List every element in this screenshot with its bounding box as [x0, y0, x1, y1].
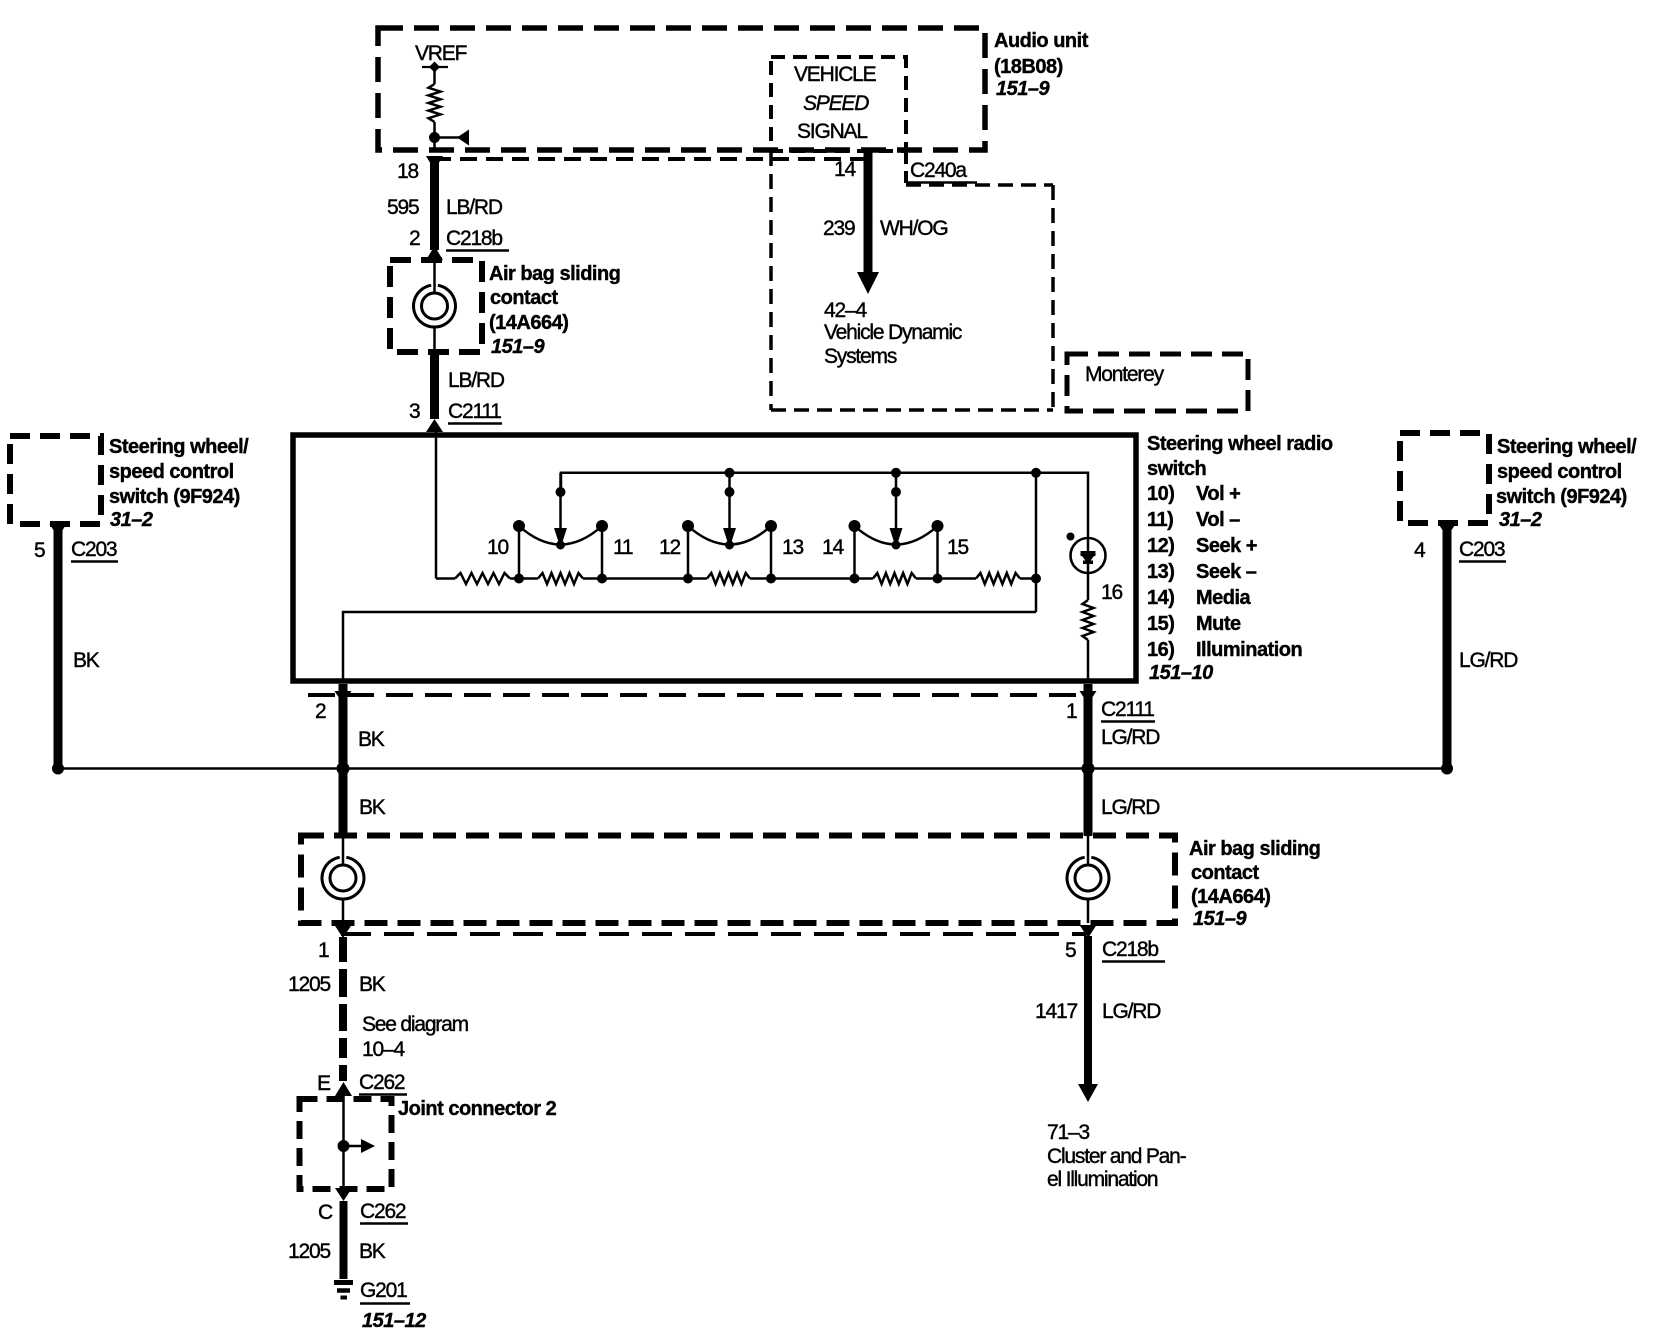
resistor bus wire segments — [436, 577, 1036, 580]
svg-text:Systems: Systems — [824, 345, 897, 368]
svg-text:2: 2 — [315, 700, 326, 723]
switch legend list — [1147, 483, 1302, 661]
svg-text:(14A664): (14A664) — [1191, 886, 1270, 908]
junction dot resistor bus end — [1031, 574, 1041, 584]
wire 239 WH/OG (thick, arrow down) — [857, 151, 879, 294]
wire label 595 LB/RD — [387, 196, 503, 219]
wire to pin 2 (internal) — [343, 612, 1036, 681]
pin 16 label — [1101, 581, 1122, 604]
switch pin 13 label — [782, 536, 803, 559]
connector arrow up at C218b pin 2 — [426, 246, 443, 260]
svg-text:10: 10 — [487, 536, 508, 559]
steering wheel/speed control switch (right) label — [1496, 436, 1637, 531]
svg-text:LG/RD: LG/RD — [1101, 726, 1160, 749]
svg-text:BK: BK — [73, 649, 100, 672]
svg-text:C262: C262 — [359, 1071, 405, 1094]
svg-text:BK: BK — [359, 1240, 386, 1263]
speed signal pickup symbol (horn) — [435, 130, 470, 146]
ground G201 symbol — [334, 1283, 353, 1298]
junction dot BK / cross wire — [337, 762, 350, 775]
svg-text:1205: 1205 — [288, 973, 330, 996]
wire label 1417 LG/RD — [1035, 1000, 1161, 1023]
junction dot right — [1441, 763, 1453, 775]
svg-text:Seek +: Seek + — [1196, 535, 1257, 557]
connector C2111 label (top) — [448, 400, 502, 424]
vertical link bus to resistor bus — [1035, 473, 1038, 612]
svg-text:Air bag sliding: Air bag sliding — [1189, 838, 1320, 860]
pin 1 label and connector C2111 label — [1066, 700, 1077, 723]
svg-text:See diagram: See diagram — [362, 1013, 469, 1036]
svg-text:12): 12) — [1147, 535, 1174, 557]
svg-text:LG/RD: LG/RD — [1101, 796, 1160, 819]
resistor R5 on bus — [976, 573, 1020, 584]
svg-text:Seek –: Seek – — [1196, 561, 1257, 583]
switch pin 10 label — [487, 536, 508, 559]
air bag sliding contact (lower) dashed box — [301, 836, 1175, 924]
Monterey label — [1085, 363, 1165, 386]
wire 1205 BK to ground thick — [340, 1201, 348, 1279]
svg-text:VREF: VREF — [415, 42, 467, 65]
junction dot joint connector — [338, 1140, 350, 1152]
connector C203 label (left) — [71, 538, 118, 562]
wire from pin3 entry down to resistor bus — [435, 432, 438, 579]
ground G201 label — [360, 1279, 410, 1304]
wire label BK (upper) — [358, 728, 385, 751]
svg-text:31–2: 31–2 — [110, 509, 153, 531]
wire 1205 BK dashed thick — [339, 937, 347, 1081]
junction dot audio unit internal — [429, 132, 440, 143]
svg-text:11): 11) — [1147, 509, 1173, 531]
svg-text:C218b: C218b — [1102, 938, 1158, 961]
svg-text:Monterey: Monterey — [1085, 363, 1165, 386]
wire label LG/RD (right) — [1459, 649, 1518, 672]
wire out of upper sliding contact — [433, 327, 436, 352]
horizontal link wire middle — [343, 767, 1088, 770]
svg-text:switch (9F924): switch (9F924) — [109, 486, 240, 508]
svg-text:BK: BK — [359, 973, 386, 996]
svg-text:151–9: 151–9 — [1193, 908, 1247, 930]
svg-text:151–9: 151–9 — [491, 336, 545, 358]
wire 595 LB/RD thick — [430, 156, 439, 250]
vehicle speed signal dashed box — [771, 57, 906, 151]
connector C262 label (bottom) — [360, 1200, 408, 1224]
wire into upper sliding contact — [433, 258, 436, 293]
connector arrow down at C2111 pin 2 — [335, 691, 352, 704]
page ref 151-10 — [1149, 662, 1213, 684]
svg-text:G201: G201 — [360, 1279, 407, 1302]
wire label 1205 BK — [288, 973, 386, 996]
steering wheel/speed control switch (left) dashed box — [10, 436, 101, 524]
switch S2 contact arc — [688, 526, 771, 545]
svg-text:el Illumination: el Illumination — [1047, 1168, 1158, 1191]
resistor R-VREF (audio unit internal) — [429, 84, 441, 122]
wire resistor to junction — [433, 122, 436, 152]
svg-text:11: 11 — [613, 536, 633, 559]
junction dot LG/RD / cross wire — [1082, 762, 1095, 775]
wire label LG/RD (upper) — [1101, 726, 1160, 749]
connector C240a dashed line — [434, 157, 868, 161]
junction dots on top bus — [725, 468, 1042, 478]
svg-text:contact: contact — [490, 287, 558, 309]
resistor R3 on bus — [707, 573, 750, 584]
pin 3 label — [409, 400, 420, 423]
pin C label — [318, 1201, 333, 1224]
wire out of lower sliding contact right — [1087, 899, 1090, 923]
steering wheel radio switch box — [293, 435, 1136, 681]
svg-text:switch: switch — [1147, 458, 1206, 480]
svg-text:LB/RD: LB/RD — [446, 196, 503, 219]
steering wheel/speed control switch (left) label — [109, 436, 249, 531]
pin 14 label (audio unit) — [834, 158, 856, 181]
svg-text:LG/RD: LG/RD — [1102, 1000, 1161, 1023]
svg-text:Illumination: Illumination — [1196, 639, 1302, 661]
joint connector 2 dashed box — [300, 1099, 392, 1189]
air bag sliding contact (lower) label — [1189, 838, 1320, 930]
svg-text:3: 3 — [409, 400, 420, 423]
pin 5 label — [34, 539, 45, 562]
connector C240a label — [906, 159, 977, 183]
resistor R4 on bus — [873, 573, 916, 584]
svg-text:C218b: C218b — [446, 227, 502, 250]
svg-text:Steering wheel/: Steering wheel/ — [109, 436, 249, 458]
svg-text:14: 14 — [834, 158, 856, 181]
connector C218b label — [446, 227, 509, 251]
svg-text:10–4: 10–4 — [362, 1038, 405, 1061]
pin E label — [317, 1072, 331, 1095]
svg-text:18: 18 — [397, 160, 418, 183]
connector arrow down at C262 pin C — [335, 1188, 352, 1201]
Monterey variant dashed box — [1067, 354, 1248, 411]
wire into lower sliding contact left — [342, 836, 345, 865]
svg-text:1417: 1417 — [1035, 1000, 1077, 1023]
svg-text:42–4: 42–4 — [824, 299, 867, 322]
connector arrow down at C203 pin 5 — [50, 524, 67, 537]
connector arrow down at C218b pin 1 — [335, 925, 352, 938]
steering wheel/speed control switch (right) dashed box — [1400, 433, 1489, 523]
connector C218b dashed line (lower) — [341, 932, 1086, 936]
svg-text:(18B08): (18B08) — [994, 56, 1063, 78]
svg-text:(14A664): (14A664) — [489, 312, 568, 334]
air bag sliding contact (upper) dashed box — [390, 260, 482, 352]
svg-text:C2111: C2111 — [1101, 698, 1154, 721]
switch pin 14 label — [822, 536, 844, 559]
destination label 71-3 cluster and panel illumination — [1047, 1121, 1187, 1191]
svg-text:Vol –: Vol – — [1196, 509, 1240, 531]
node VREF label — [415, 42, 467, 65]
wire BK pin2 thick — [339, 684, 348, 836]
svg-text:13: 13 — [782, 536, 803, 559]
connector arrow down at pin 18 — [426, 156, 443, 170]
pin 18 label — [397, 160, 418, 183]
svg-text:16): 16) — [1147, 639, 1174, 661]
joint connector 2 label — [398, 1098, 557, 1120]
svg-text:595: 595 — [387, 196, 419, 219]
svg-text:VEHICLE: VEHICLE — [794, 63, 877, 86]
svg-text:151–9: 151–9 — [996, 78, 1050, 100]
vehicle speed signal label — [794, 63, 877, 143]
svg-text:contact: contact — [1191, 862, 1259, 884]
wire 1417 LG/RD thick with arrow — [1078, 936, 1098, 1102]
svg-text:SIGNAL: SIGNAL — [797, 120, 867, 143]
junction dot left — [52, 763, 64, 775]
svg-text:2: 2 — [409, 227, 420, 250]
svg-text:speed control: speed control — [1497, 461, 1622, 483]
svg-text:Mute: Mute — [1196, 613, 1241, 635]
sliding contact coil symbol (upper) — [413, 285, 455, 327]
wire label 1205 BK (bottom) — [288, 1240, 386, 1263]
svg-text:15: 15 — [947, 536, 968, 559]
switch S1 contact arc — [519, 526, 602, 545]
switch S1 actuator arrow — [554, 473, 567, 550]
page ref 151-12 — [362, 1310, 426, 1332]
svg-text:speed control: speed control — [109, 461, 234, 483]
connector arrow down at C203 pin 4 — [1439, 524, 1456, 537]
wire through joint connector — [342, 1096, 345, 1189]
note see diagram 10-4 — [362, 1013, 469, 1061]
vehicle dynamic systems dashed region box — [771, 151, 1053, 410]
connector arrow down at C2111 pin 1 — [1080, 691, 1097, 704]
svg-text:LG/RD: LG/RD — [1459, 649, 1518, 672]
svg-text:1: 1 — [318, 939, 329, 962]
switch pin 11 label — [613, 536, 633, 559]
resistor R16 illumination — [1083, 600, 1094, 640]
switch S3 contact arc — [855, 526, 938, 545]
svg-text:WH/OG: WH/OG — [880, 217, 948, 240]
horizontal link wire left — [58, 767, 343, 770]
svg-text:switch (9F924): switch (9F924) — [1496, 486, 1627, 508]
svg-text:C262: C262 — [360, 1200, 406, 1223]
pin 5 label and connector C218b label (lower) — [1065, 939, 1076, 962]
svg-text:Media: Media — [1196, 587, 1252, 609]
switch S3 actuator arrow — [890, 473, 903, 550]
switch S1 posts — [513, 520, 608, 584]
switch S2 actuator arrow — [723, 473, 736, 550]
resistor R1 on bus — [455, 573, 510, 584]
wire label BK (left) — [73, 649, 100, 672]
svg-text:Cluster and Pan-: Cluster and Pan- — [1047, 1145, 1187, 1168]
svg-text:Joint connector 2: Joint connector 2 — [398, 1098, 557, 1120]
wire label BK (lower) — [359, 796, 386, 819]
svg-text:C203: C203 — [1459, 538, 1505, 561]
svg-text:E: E — [317, 1072, 331, 1095]
svg-text:C203: C203 — [71, 538, 117, 561]
horizontal link wire right — [1088, 767, 1447, 770]
connector arrow up at C262 pin E — [335, 1082, 352, 1096]
pin 2 label C218b — [409, 227, 420, 250]
resistor R2 on bus — [538, 573, 583, 584]
connector C240a vertical jog — [904, 152, 908, 184]
svg-text:SPEED: SPEED — [803, 92, 869, 115]
wire lamp to resistor 16 — [1087, 573, 1090, 600]
pin 2 label (C2111) — [315, 700, 326, 723]
sliding contact coil symbol (lower right) — [1067, 857, 1109, 899]
wire label LB/RD — [448, 369, 505, 392]
svg-text:BK: BK — [359, 796, 386, 819]
top bus wire (switch commons) — [561, 473, 1088, 538]
svg-text:5: 5 — [34, 539, 45, 562]
switch S2 posts — [682, 520, 777, 584]
connector arrow up at C2111 pin 3 — [426, 419, 443, 432]
wire label 239 WH/OG — [823, 217, 948, 240]
svg-text:1: 1 — [1066, 700, 1077, 723]
svg-text:C2111: C2111 — [448, 400, 501, 423]
svg-text:LB/RD: LB/RD — [448, 369, 505, 392]
VREF terminal symbol — [422, 62, 448, 73]
svg-text:14: 14 — [822, 536, 844, 559]
svg-text:71–3: 71–3 — [1047, 1121, 1089, 1144]
illumination lamp symbol — [1067, 533, 1106, 574]
connector C2111 dashed line (bottom) — [308, 693, 1086, 697]
svg-text:151–12: 151–12 — [362, 1310, 426, 1332]
svg-text:Steering wheel/: Steering wheel/ — [1497, 436, 1637, 458]
svg-text:13): 13) — [1147, 561, 1174, 583]
audio unit label — [994, 30, 1089, 100]
svg-text:16: 16 — [1101, 581, 1122, 604]
switch pin 15 label — [947, 536, 968, 559]
connector C203 label (right) — [1459, 538, 1506, 562]
pin 1 label (C218b lower) — [318, 939, 329, 962]
svg-text:14): 14) — [1147, 587, 1174, 609]
svg-text:239: 239 — [823, 217, 855, 240]
svg-text:C240a: C240a — [910, 159, 967, 182]
wire resistor 16 to pin 1 — [1087, 640, 1090, 681]
wire LB/RD thick to C2111 pin 3 — [430, 352, 439, 419]
destination label 42-4 Vehicle Dynamic Systems — [824, 299, 962, 368]
svg-text:Air bag sliding: Air bag sliding — [489, 263, 620, 285]
connector C262 label (top) — [359, 1071, 407, 1095]
svg-text:C: C — [318, 1201, 333, 1224]
switch S3 posts — [849, 520, 944, 584]
sliding contact coil symbol (lower left) — [322, 857, 364, 899]
svg-text:Vol +: Vol + — [1196, 483, 1240, 505]
svg-text:151–10: 151–10 — [1149, 662, 1213, 684]
wire LG/RD pin1 thick — [1084, 684, 1093, 836]
connector arrow down at C218b pin 5 — [1080, 925, 1097, 938]
joint connector branch arrow — [344, 1139, 376, 1153]
steering wheel radio switch labels — [1147, 433, 1333, 480]
svg-text:Steering wheel radio: Steering wheel radio — [1147, 433, 1333, 455]
wire label LG/RD (lower) — [1101, 796, 1160, 819]
svg-text:1205: 1205 — [288, 1240, 330, 1263]
svg-text:4: 4 — [1414, 539, 1426, 562]
wire into lower sliding contact right — [1087, 836, 1090, 865]
svg-text:10): 10) — [1147, 483, 1174, 505]
wire BK left thick — [54, 528, 63, 769]
svg-text:31–2: 31–2 — [1499, 509, 1542, 531]
svg-text:5: 5 — [1065, 939, 1076, 962]
wire out of lower sliding contact left — [342, 899, 345, 923]
svg-text:Vehicle Dynamic: Vehicle Dynamic — [824, 321, 962, 344]
air bag sliding contact (upper) label — [489, 263, 620, 358]
audio unit U1 (18B08) dashed box — [378, 28, 985, 150]
svg-text:Audio unit: Audio unit — [994, 30, 1089, 52]
svg-text:12: 12 — [659, 536, 680, 559]
wire LG/RD right thick — [1443, 528, 1452, 769]
svg-text:15): 15) — [1147, 613, 1174, 635]
svg-text:BK: BK — [358, 728, 385, 751]
pin 4 label — [1414, 539, 1426, 562]
switch pin 12 label — [659, 536, 680, 559]
wire VREF to resistor — [433, 67, 436, 84]
